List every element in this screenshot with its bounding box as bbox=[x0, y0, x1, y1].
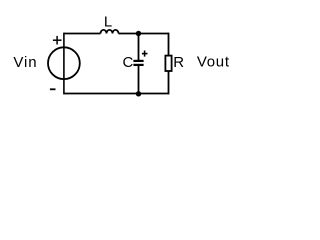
resistor R body bbox=[165, 56, 171, 71]
svg-text:C: C bbox=[123, 54, 134, 71]
svg-text:Vout: Vout bbox=[197, 54, 230, 71]
wire resistor top lead bbox=[168, 33, 170, 56]
wire resistor bottom lead bbox=[168, 71, 170, 94]
inductor L bbox=[101, 30, 119, 34]
wire top rail right (inductor to resistor corner) bbox=[119, 33, 169, 35]
source minus polarity mark bbox=[50, 88, 56, 90]
svg-text:Vin: Vin bbox=[13, 54, 37, 71]
wire capacitor top lead bbox=[138, 34, 140, 61]
capacitor C top plate bbox=[133, 60, 143, 62]
svg-text:R: R bbox=[173, 54, 184, 71]
wire source branch vertical bbox=[63, 33, 65, 95]
wire bottom rail bbox=[64, 93, 169, 95]
node junction dot bottom (ground net) bbox=[136, 91, 141, 96]
voltage source V (circle) bbox=[48, 47, 80, 79]
capacitor C bottom plate bbox=[133, 64, 143, 66]
wire capacitor bottom lead bbox=[138, 66, 140, 94]
wire top rail left (source top to inductor) bbox=[64, 33, 101, 35]
node junction dot top (L-C-R net) bbox=[136, 31, 141, 36]
capacitor plus polarity mark bbox=[142, 51, 148, 57]
source plus polarity mark bbox=[53, 36, 62, 45]
svg-text:L: L bbox=[104, 13, 112, 30]
